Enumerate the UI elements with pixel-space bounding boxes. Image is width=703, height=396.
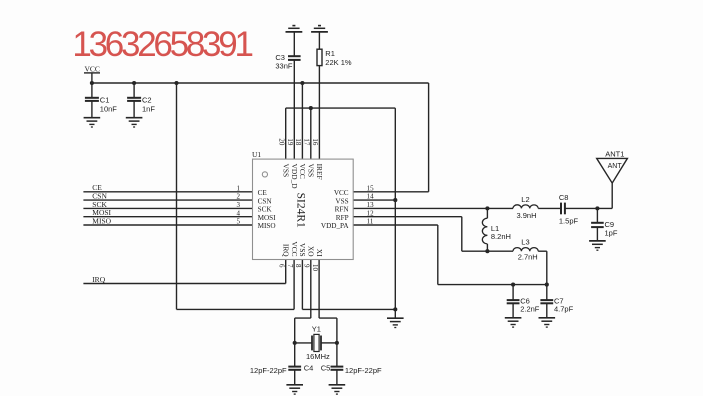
svg-text:IREF: IREF — [315, 164, 324, 180]
svg-text:VCC: VCC — [290, 241, 299, 256]
svg-text:U1: U1 — [252, 150, 261, 159]
svg-text:MOSI: MOSI — [258, 214, 277, 222]
svg-text:19: 19 — [286, 138, 294, 146]
svg-text:9: 9 — [302, 264, 310, 268]
svg-text:10: 10 — [311, 264, 319, 272]
svg-text:16: 16 — [311, 138, 319, 146]
svg-text:Y1: Y1 — [312, 325, 321, 334]
svg-text:RFP: RFP — [336, 214, 349, 222]
svg-text:VSS: VSS — [307, 164, 316, 178]
svg-text:XI: XI — [315, 249, 324, 257]
svg-text:VDD_D: VDD_D — [290, 164, 299, 190]
svg-text:MISO: MISO — [92, 216, 111, 225]
svg-text:VSS: VSS — [282, 164, 291, 178]
svg-text:VSS: VSS — [335, 197, 348, 205]
svg-text:8: 8 — [294, 264, 302, 268]
svg-text:IRQ: IRQ — [92, 275, 106, 284]
svg-text:12pF-22pF: 12pF-22pF — [345, 366, 382, 375]
svg-text:4.7pF: 4.7pF — [554, 305, 574, 314]
svg-text:33nF: 33nF — [275, 62, 293, 71]
svg-text:2.7nH: 2.7nH — [518, 253, 538, 262]
svg-text:1: 1 — [237, 184, 241, 192]
svg-text:C4: C4 — [304, 363, 314, 372]
svg-text:SCK: SCK — [258, 206, 273, 214]
svg-text:7: 7 — [286, 264, 294, 268]
svg-text:6: 6 — [277, 264, 285, 268]
svg-text:3.9nH: 3.9nH — [517, 211, 537, 220]
svg-text:13: 13 — [367, 201, 375, 209]
svg-text:18: 18 — [294, 138, 302, 146]
svg-text:12: 12 — [367, 209, 375, 217]
svg-text:2.2nF: 2.2nF — [520, 305, 540, 314]
svg-text:XO: XO — [307, 246, 316, 257]
svg-text:C1: C1 — [100, 96, 110, 105]
svg-text:L2: L2 — [521, 195, 529, 204]
svg-text:1pF: 1pF — [605, 229, 618, 238]
svg-text:10nF: 10nF — [100, 104, 118, 113]
svg-text:8.2nH: 8.2nH — [491, 232, 511, 241]
svg-text:SI24R1: SI24R1 — [294, 193, 306, 228]
svg-text:C2: C2 — [142, 96, 152, 105]
svg-text:C8: C8 — [559, 193, 569, 202]
svg-text:14: 14 — [367, 193, 375, 201]
svg-text:1.5pF: 1.5pF — [559, 217, 579, 226]
svg-text:1nF: 1nF — [142, 104, 155, 113]
svg-text:C5: C5 — [321, 363, 331, 372]
svg-text:3: 3 — [237, 201, 241, 209]
svg-text:VSS: VSS — [298, 243, 307, 257]
svg-text:12pF-22pF: 12pF-22pF — [250, 366, 287, 375]
svg-text:2: 2 — [237, 193, 241, 201]
svg-text:15: 15 — [367, 184, 375, 192]
svg-text:MISO: MISO — [258, 222, 276, 230]
svg-text:16MHz: 16MHz — [306, 352, 330, 361]
svg-text:L3: L3 — [521, 238, 529, 247]
svg-text:RFN: RFN — [335, 206, 350, 214]
svg-text:VCC: VCC — [85, 65, 100, 74]
svg-text:CE: CE — [258, 189, 268, 197]
svg-text:5: 5 — [237, 218, 241, 226]
svg-text:17: 17 — [302, 138, 310, 146]
svg-text:IRQ: IRQ — [282, 244, 291, 257]
svg-text:4: 4 — [237, 209, 241, 217]
svg-text:11: 11 — [367, 218, 374, 226]
svg-text:22K 1%: 22K 1% — [325, 58, 352, 67]
svg-text:VCC: VCC — [334, 189, 349, 197]
svg-text:CSN: CSN — [258, 197, 273, 205]
svg-text:VDD_PA: VDD_PA — [321, 222, 350, 230]
svg-text:ANT1: ANT1 — [605, 149, 624, 158]
svg-text:VCC: VCC — [298, 164, 307, 179]
svg-text:20: 20 — [277, 138, 285, 146]
svg-text:ANT: ANT — [608, 163, 623, 170]
svg-text:13632658391: 13632658391 — [72, 25, 252, 64]
